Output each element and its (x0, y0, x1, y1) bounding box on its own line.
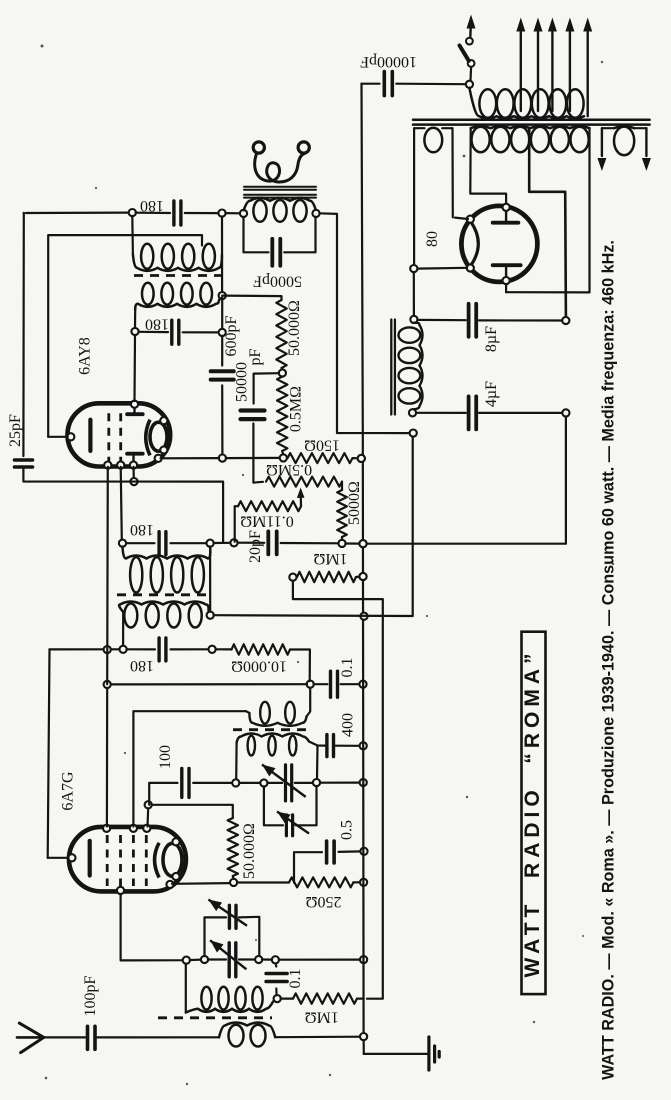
wire 6AY8 plate stem to lower line (132, 467, 135, 479)
wire output transformer B+ feed (319, 213, 409, 433)
wire 6AY8 top plate up to IF1 sec (133, 335, 136, 401)
trimmer capacitor ant (parallel loop) (205, 917, 227, 956)
6AY8 cathode bar (88, 420, 92, 451)
wire 6A7G pin2 up to oscillator tickler (133, 711, 246, 826)
IF2 secondary coil (119, 602, 209, 613)
capacitor 100 oscillator grid (182, 768, 189, 797)
svg-text:0.1: 0.1 (287, 969, 304, 989)
HV center tap (529, 128, 566, 317)
capacitor 400 oscillator (327, 735, 334, 757)
wire 6A7G pin1 up to AVC line (106, 684, 108, 826)
wire antenna to C ant (44, 1036, 86, 1038)
resistor 50000 ohm detector load (276, 300, 286, 368)
wire C ant to antenna coil (97, 1036, 219, 1038)
AVC line (107, 683, 307, 685)
svg-text:100: 100 (157, 745, 174, 769)
capacitor 0.1 AVC (314, 683, 328, 685)
svg-text:4µF: 4µF (483, 381, 500, 407)
IF1 secondary coil (135, 300, 219, 310)
speaker voice-coil terminals (253, 142, 264, 153)
node L2 right / detector return (273, 999, 275, 1003)
svg-text:6AY8: 6AY8 (77, 337, 94, 375)
IF2 primary tuning capacitor 180 (126, 542, 155, 544)
triode-hexode converter tube 6A7G (69, 827, 186, 892)
svg-text:5000Ω: 5000Ω (346, 481, 363, 525)
svg-text:6A7G: 6A7G (60, 771, 77, 811)
resistor 150 ohm (288, 453, 353, 463)
resistor 1M ohm antenna grid leak (281, 997, 293, 999)
wire IF1 prim left from node (131, 216, 134, 254)
capacitor 50000pF (254, 373, 279, 403)
pot wiper arrow (300, 493, 302, 506)
wire 25pF to diode line (23, 467, 223, 542)
antenna transformer core (dashed) (158, 1016, 272, 1019)
speaker field choke winding (413, 323, 423, 410)
wire L4 left to tuning line (235, 743, 238, 780)
wire 600pF down to diode line (221, 385, 223, 454)
6AY8 top plate (127, 412, 143, 416)
trimmer capacitor osc (parallel loop) (264, 786, 283, 825)
wire L4 right junction to 400 cap (309, 742, 325, 746)
svg-text:0.5MΩ: 0.5MΩ (266, 461, 312, 478)
capacitor 600pF (211, 371, 234, 379)
svg-text:0.5MΩ: 0.5MΩ (288, 386, 305, 432)
IF1 secondary capacitor 180 (138, 331, 168, 334)
resistor 0.11M ohm wiper feed (235, 506, 238, 542)
svg-text:50.000Ω: 50.000Ω (286, 300, 303, 356)
wire 6A7G cathode line (121, 892, 202, 961)
svg-text:25pF: 25pF (7, 414, 24, 447)
80 top plate (493, 221, 519, 225)
wire top-left corner down to 25pF (22, 213, 25, 456)
antenna coil secondary L2 (186, 1003, 273, 1013)
IF1 primary coil (133, 254, 222, 271)
potentiometer 0.5M ohm volume (266, 477, 342, 487)
ground bus vertical (362, 84, 364, 1054)
wire 10000 ohm to AVC node (290, 650, 310, 682)
6A7G cathode bar (88, 841, 92, 876)
wire IF1 sec left down to 180 (134, 310, 136, 329)
IF2 core (dashed) (117, 593, 210, 596)
6A7G anode ellipse (163, 843, 182, 876)
wire left-lower vertical (6A7G grid to 180pF line) (48, 649, 50, 857)
svg-text:10.000Ω: 10.000Ω (231, 658, 287, 675)
capacitor 10000pF mains (362, 83, 380, 85)
wire 6A7G left grid lead (48, 857, 69, 859)
svg-text:600pF: 600pF (223, 315, 240, 356)
wire 6A7G pin3 up to 50000ohm (146, 808, 149, 826)
svg-text:0.11MΩ: 0.11MΩ (240, 512, 294, 529)
capacitor 5000pF tone (244, 217, 269, 253)
wire 180pF line left segment (50, 648, 120, 650)
output transformer core (244, 186, 316, 188)
svg-text:180: 180 (140, 197, 164, 214)
wire antenna coil to ground bus (275, 1036, 363, 1039)
resistor 50000 ohm oscillator (152, 805, 233, 818)
wire 6AY8 grid lead left (48, 436, 68, 438)
title box WATT RADIO ROMA (522, 632, 546, 994)
svg-text:80: 80 (424, 231, 441, 247)
svg-text:150Ω: 150Ω (304, 436, 340, 453)
wire 180 line to speaker (225, 212, 240, 214)
6AY8 grid dashes (107, 413, 110, 461)
svg-text:1MΩ: 1MΩ (305, 1009, 339, 1026)
resistor 1M ohm AF grid (289, 574, 296, 581)
svg-text:1MΩ: 1MΩ (313, 550, 347, 567)
wire 6AY8 grid return up-left (48, 235, 202, 437)
6AY8 diode arc (146, 420, 150, 456)
capacitor 4uF (416, 412, 466, 414)
80 filament arc (471, 222, 479, 266)
svg-text:WATT RADIO “ROMA”: WATT RADIO “ROMA” (521, 648, 544, 977)
IF1 core (dashed) (134, 274, 221, 277)
mains switch (466, 81, 473, 88)
wire tickler to node (307, 688, 311, 717)
svg-text:180: 180 (145, 315, 169, 332)
wire 222 vertical to 600pF (221, 299, 223, 329)
IF2 primary coil (123, 547, 211, 559)
rectifier tube 80 (461, 206, 537, 282)
svg-text:0.1: 0.1 (339, 658, 356, 678)
resistor 250 ohm cathode (237, 881, 289, 883)
80 pins (503, 204, 510, 211)
6A7G pins (68, 854, 75, 861)
mains arrow (469, 22, 472, 38)
6A7G grid dashes (106, 835, 109, 886)
capacitor 0.5 cathode bypass (294, 852, 322, 882)
bus node 20pF line (359, 540, 366, 547)
ground symbol (364, 1053, 428, 1055)
svg-text:WATT RADIO. — Mod. « Roma ». —: WATT RADIO. — Mod. « Roma ». — Produzion… (599, 240, 617, 1080)
wire IF1 sec node to 50000 det resistor (222, 296, 281, 300)
wire IF2 sec to choke line (214, 437, 413, 617)
wire IF1 sec right to node (219, 298, 222, 301)
svg-text:250Ω: 250Ω (305, 893, 341, 910)
6AY8 diode ellipse (150, 422, 167, 451)
oscillator coil L4 (237, 734, 309, 743)
bus node 150ohm (358, 455, 365, 462)
antenna (17, 1036, 42, 1039)
capacitor 25pF (15, 460, 33, 467)
bus node antenna line (360, 1033, 367, 1040)
svg-text:pF: pF (247, 348, 264, 365)
80 bottom plate (493, 263, 521, 267)
80 filament leads (455, 218, 468, 219)
output transformer primary (244, 198, 316, 210)
IF1 primary capacitor 180 (23, 212, 25, 214)
HV secondary winding (471, 126, 590, 128)
power transformer core (413, 119, 650, 122)
svg-text:180: 180 (130, 657, 154, 674)
power transformer primary (469, 88, 584, 118)
wire diode output line (161, 457, 220, 459)
svg-text:10000pF: 10000pF (360, 53, 417, 70)
svg-text:20pF: 20pF (247, 530, 264, 563)
pilot winding with arrows (614, 126, 634, 128)
6A7G anode arc (155, 843, 160, 878)
svg-text:180: 180 (130, 521, 154, 538)
capacitor 20pF (237, 542, 264, 544)
svg-text:400: 400 (340, 713, 357, 737)
resistor 0.5M ohm (277, 377, 287, 451)
wire 20pF line to bus and beyond (345, 542, 359, 544)
antenna coil primary L1 (219, 1023, 275, 1038)
capacitor 0.1 antenna (275, 989, 278, 996)
wire 6AY8 pin2 to IF2 cap line (121, 467, 122, 540)
resistor 10000 ohm screen (216, 648, 232, 650)
speaker voice coil (255, 153, 306, 182)
capacitor 100pF antenna series (88, 1026, 96, 1049)
wire 1M left down and right to output grid return (293, 581, 383, 999)
paper specks (scan noise) (41, 45, 44, 48)
80 bottom plate lead (505, 284, 507, 292)
HV winding left lead to plate (470, 128, 506, 206)
oscillator transformer core (dashed) (233, 728, 308, 731)
wire IF2 sec left down to 180 line (122, 612, 124, 646)
wire IF1 vert right 222 (221, 217, 223, 293)
variable capacitor CV osc main (239, 782, 260, 784)
bus node 1M (359, 573, 366, 580)
wire 50000pF down to volume pot (253, 424, 263, 483)
wire IF2 sec right down from 20pF line (209, 547, 211, 612)
IF2 secondary capacitor 180 (127, 648, 156, 650)
wire 6AY8 pin to IF2 line (106, 467, 109, 684)
wire 20pF line segment (214, 542, 231, 544)
6AY8 pins (67, 433, 74, 440)
rectifier filament winding (414, 127, 424, 129)
svg-text:5000pF: 5000pF (253, 272, 302, 289)
svg-text:50000: 50000 (234, 362, 251, 402)
oscillator grid line (149, 783, 177, 805)
oscillator tickler coil L3 (246, 711, 249, 713)
6AY8 bottom plate (127, 452, 143, 456)
variable capacitor CV ant main (208, 958, 226, 960)
svg-text:50.000Ω: 50.000Ω (241, 823, 258, 879)
svg-text:0.5: 0.5 (339, 820, 356, 840)
speaker field choke core (390, 320, 392, 415)
HV right lead (506, 128, 589, 292)
bus node IF line crossing (360, 613, 367, 620)
wire 6A7G anode to dropping resistor (172, 882, 231, 885)
svg-text:8µF: 8µF (483, 326, 500, 352)
capacitor 8uF (417, 319, 466, 322)
svg-text:100pF: 100pF (82, 975, 99, 1016)
IF amp / detector tube 6AY8 (67, 403, 170, 466)
node IF2 sec right (209, 611, 211, 613)
resistor 5000 ohm (341, 482, 343, 490)
wire L2 left end up to cathode line (185, 964, 187, 1013)
mains tap arrows (520, 32, 522, 111)
